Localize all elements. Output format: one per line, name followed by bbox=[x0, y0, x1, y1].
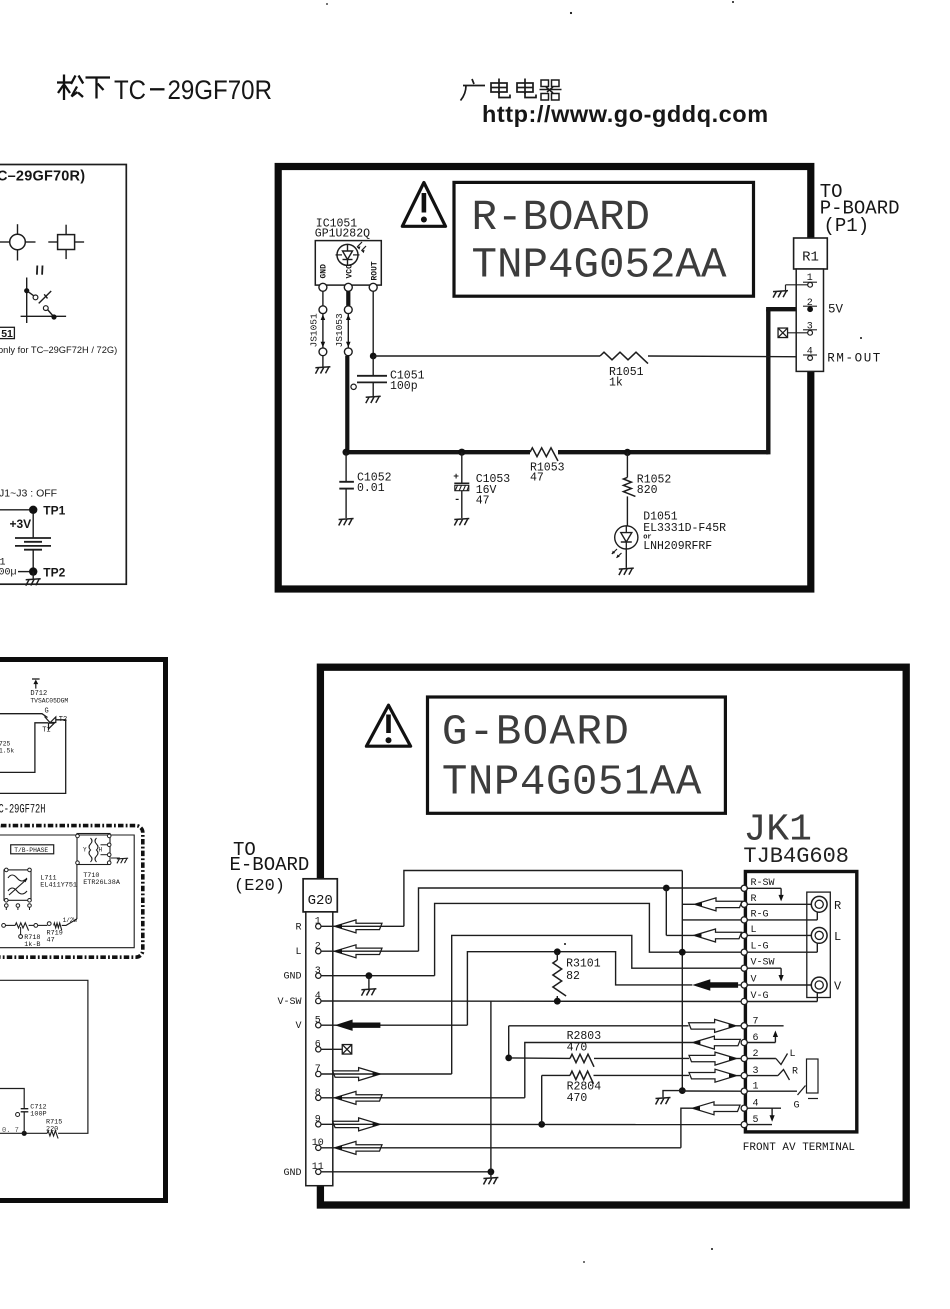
capacitor C1 100u partial labels bbox=[0, 558, 17, 579]
header brand glyphs 松下 bbox=[57, 75, 110, 101]
svg-text:H: H bbox=[99, 847, 103, 854]
ground of C1052 bbox=[339, 519, 354, 526]
svg-text:ROUT: ROUT bbox=[370, 261, 379, 280]
JK1 pin2 switch contact L bbox=[747, 1049, 795, 1065]
header CJK 广电电器 bbox=[461, 79, 562, 101]
R1 pin 3 bbox=[788, 321, 818, 335]
svg-text:GND: GND bbox=[283, 972, 301, 983]
svg-text:T/B-PHASE: T/B-PHASE bbox=[14, 847, 48, 854]
wire G20 pin10 to JK1 pin4 bbox=[321, 1102, 740, 1148]
svg-text:V: V bbox=[295, 1021, 301, 1032]
svg-text:V-SW: V-SW bbox=[751, 958, 775, 969]
svg-text:R1: R1 bbox=[802, 250, 819, 266]
ground of JS1051 bbox=[315, 367, 330, 374]
resistor R1051 1k bbox=[600, 352, 648, 389]
wire R1051 to R1 pin4 bbox=[648, 355, 807, 358]
svg-text:TC: TC bbox=[114, 75, 146, 105]
R1 pin 2 5V bbox=[803, 298, 844, 317]
JK1 upper pin circles and labels bbox=[741, 878, 774, 1005]
jumper JS1051 bbox=[309, 291, 327, 366]
svg-text:GND: GND bbox=[319, 264, 328, 279]
G20 pin 10 bbox=[312, 1138, 382, 1154]
connector R1 to P-board bbox=[794, 238, 828, 371]
JK1 pin4-5 down arrow link bbox=[747, 1108, 781, 1124]
svg-text:Y: Y bbox=[83, 847, 87, 854]
wire G20 pin8 to JK1 pin6 bbox=[321, 1036, 740, 1098]
transformer L711 EL411Y751 bbox=[4, 868, 77, 902]
label JK1 TJB4G608 bbox=[743, 809, 849, 870]
lower sub-circuit box with C712 R715 bbox=[0, 980, 88, 1138]
svg-text:L: L bbox=[295, 947, 301, 958]
svg-text:V-G: V-G bbox=[751, 991, 769, 1002]
svg-text:(P1): (P1) bbox=[824, 215, 870, 237]
svg-text:L: L bbox=[751, 925, 757, 936]
svg-text:1: 1 bbox=[315, 917, 321, 928]
svg-text:+: + bbox=[453, 471, 459, 482]
svg-text:G: G bbox=[45, 708, 49, 716]
wire L-G to jack L sleeve bbox=[747, 944, 817, 953]
svg-text:TP2: TP2 bbox=[43, 566, 65, 580]
LED D1051 bbox=[612, 511, 726, 568]
svg-text:11: 11 bbox=[312, 1162, 324, 1173]
header model number TC-29GF70R bbox=[114, 75, 272, 105]
svg-text:(E20): (E20) bbox=[234, 877, 285, 896]
test point TP1 bbox=[0, 504, 66, 518]
svg-text:R: R bbox=[295, 922, 301, 933]
warning triangle G-board bbox=[366, 705, 410, 746]
G20 pin 6 bbox=[315, 1040, 321, 1053]
RCA jack L bbox=[747, 928, 841, 944]
svg-text:8: 8 bbox=[315, 1088, 321, 1099]
svg-text:6: 6 bbox=[315, 1040, 321, 1051]
svg-text:R: R bbox=[792, 1067, 798, 1078]
wire G20 pin2 L to JK1 R-SW and L bbox=[321, 885, 742, 952]
svg-text:5: 5 bbox=[315, 1015, 321, 1026]
svg-text:100P: 100P bbox=[30, 1110, 46, 1118]
svg-text:only for TC–29GF72H / 72G): only for TC–29GF72H / 72G) bbox=[0, 345, 117, 355]
svg-text:R3101: R3101 bbox=[566, 958, 601, 971]
svg-text:00µ: 00µ bbox=[0, 568, 17, 579]
R1 pin 4 RM-OUT bbox=[803, 347, 882, 366]
wire G20 pin5 V to JK1 V bbox=[321, 948, 692, 1025]
resistor R1053 47 bbox=[530, 448, 565, 485]
ground of D1051 bbox=[619, 568, 634, 575]
wire ROUT to node and R1051 bbox=[370, 291, 600, 359]
svg-text:1/2W: 1/2W bbox=[63, 917, 78, 924]
wire G20 pin7 to JK1 V-SW bbox=[321, 935, 741, 1074]
svg-text:G20: G20 bbox=[308, 893, 333, 909]
G20 pin circles numbers labels and arrows bbox=[0, 0, 1, 1]
JK1 pin6 up arrow link bbox=[747, 1026, 783, 1043]
RCA jack V bbox=[747, 977, 842, 993]
transformer T710 ETR26L38A bbox=[76, 834, 121, 888]
5V thick supply wire from VCC to bus and R1 pin2 bbox=[345, 309, 806, 454]
resistor R725 labels partial bbox=[0, 741, 14, 755]
svg-text:JS1051: JS1051 bbox=[309, 313, 320, 348]
capacitor C1051 100p bbox=[351, 356, 425, 396]
wire G20 pin9 to JK1 pin5 bbox=[321, 1121, 741, 1128]
G-BOARD frame bbox=[320, 667, 906, 1205]
wire R-G to jack R sleeve bbox=[747, 912, 817, 920]
battery +3V bbox=[10, 513, 52, 571]
title box G-BOARD TNP4G051AA bbox=[428, 697, 726, 813]
slide switch symbol bbox=[21, 278, 67, 324]
ground of C1051 bbox=[366, 396, 381, 403]
svg-text:ETR26L38A: ETR26L38A bbox=[83, 879, 121, 887]
varistor D712 TVSAC05DGM bbox=[30, 679, 68, 704]
vertical bus wire V1 bbox=[681, 871, 683, 1091]
svg-text:R-SW: R-SW bbox=[751, 878, 775, 889]
G20 pin 2 L bbox=[295, 941, 382, 958]
JK1 pin1 switch contact G and earphone jack bbox=[747, 1059, 818, 1112]
no-connect cross square at R1 pin3 bbox=[778, 328, 788, 338]
svg-text:V-SW: V-SW bbox=[277, 997, 301, 1008]
title box R-BOARD TNP4G052AA bbox=[454, 182, 754, 296]
JK1 R-SW switch arm with down arrow bbox=[747, 888, 783, 901]
svg-text:TNP4G052AA: TNP4G052AA bbox=[472, 242, 728, 290]
G20 pin 1 R bbox=[295, 917, 382, 934]
label FRONT AV TERMINAL bbox=[743, 1142, 855, 1154]
svg-text:L-G: L-G bbox=[751, 942, 769, 953]
svg-text:VCC: VCC bbox=[345, 264, 354, 279]
label box T/B-PHASE bbox=[11, 845, 54, 854]
svg-text:FRONT AV TERMINAL: FRONT AV TERMINAL bbox=[743, 1142, 855, 1154]
test point TP2 bbox=[18, 566, 66, 586]
svg-text:R: R bbox=[834, 899, 841, 913]
svg-text:G: G bbox=[794, 1101, 800, 1112]
bottom-left box frame bbox=[0, 660, 166, 1201]
inner thin box of phase section bbox=[0, 835, 134, 948]
warning triangle R-board bbox=[402, 183, 445, 227]
svg-text:C-29GF72H: C-29GF72H bbox=[0, 802, 46, 816]
G20 pin 3 GND bbox=[283, 966, 321, 983]
scan specks bbox=[326, 1, 862, 1263]
svg-text:V: V bbox=[751, 975, 757, 986]
svg-text:+3V: +3V bbox=[10, 517, 32, 531]
wire G20 pin1 R to JK1 R (via top rail) bbox=[321, 871, 682, 927]
svg-text:JS1053: JS1053 bbox=[334, 313, 345, 348]
svg-text:47: 47 bbox=[47, 937, 55, 945]
RCA jack housing bbox=[807, 892, 831, 997]
G20 pin 11 GND bbox=[283, 1162, 323, 1179]
svg-text:EL3331D-F45R: EL3331D-F45R bbox=[643, 522, 726, 535]
G20 pin 5 V solid arrow bbox=[295, 1015, 380, 1032]
wire JK1 pin1 ground node bbox=[663, 1087, 741, 1097]
wire G20 pin6 to cross square bbox=[321, 1045, 352, 1055]
wire V-G to jack V sleeve bbox=[747, 993, 817, 1001]
jumper JS1053 bbox=[334, 291, 352, 355]
label TO P-BOARD (P1) bbox=[820, 181, 900, 237]
arrow into JK1 R bbox=[682, 898, 744, 911]
label TC-29GF72H partial bbox=[0, 802, 46, 816]
svg-text:47: 47 bbox=[476, 495, 490, 508]
jumper label box 51 bbox=[0, 327, 14, 340]
svg-text:51: 51 bbox=[1, 328, 13, 340]
svg-text:7: 7 bbox=[315, 1064, 321, 1075]
svg-text:470: 470 bbox=[567, 1041, 588, 1054]
JK1 connector box bbox=[745, 872, 856, 1132]
svg-text:TJB4G608: TJB4G608 bbox=[743, 844, 849, 869]
svg-text:4: 4 bbox=[315, 991, 321, 1002]
svg-text:C–29GF70R): C–29GF70R) bbox=[0, 169, 85, 185]
G20 pin 4 V-SW bbox=[277, 991, 321, 1008]
svg-text:220: 220 bbox=[46, 1125, 58, 1133]
svg-text:T1: T1 bbox=[42, 727, 50, 735]
RCA jack R bbox=[747, 896, 841, 912]
svg-text:E-BOARD: E-BOARD bbox=[230, 854, 310, 876]
svg-text:R-G: R-G bbox=[751, 909, 769, 920]
parallel marks bbox=[37, 266, 43, 275]
wire JK1 pin7 riser bbox=[505, 1019, 741, 1061]
top-left box title text C-29GF70R) bbox=[0, 169, 85, 185]
capacitor C1053 47uF 16V electrolytic bbox=[453, 449, 510, 518]
svg-text:GND: GND bbox=[283, 1168, 301, 1179]
svg-text:TVSAC05DGM: TVSAC05DGM bbox=[30, 697, 68, 704]
svg-text:100p: 100p bbox=[390, 380, 418, 393]
svg-text:TP1: TP1 bbox=[43, 504, 65, 518]
G20 pin 9 bbox=[315, 1115, 380, 1131]
resistor R2804 470 to JK1 pin3 bbox=[542, 1069, 741, 1124]
svg-text:http://www.go-gddq.com: http://www.go-gddq.com bbox=[482, 101, 769, 127]
JK1 V-SW switch arm with down arrow bbox=[747, 968, 783, 981]
svg-text:LNH209RFRF: LNH209RFRF bbox=[643, 540, 712, 553]
wire G20 pin3 GND to JK1 L-G bbox=[321, 903, 741, 988]
svg-text:2: 2 bbox=[315, 941, 321, 952]
wire G20 pin4 V-SW to JK1 V-G bbox=[321, 1000, 741, 1003]
jumper pins under L711 bbox=[5, 904, 32, 910]
svg-text:RM-OUT: RM-OUT bbox=[827, 352, 882, 366]
connector G20 to E-board bbox=[303, 879, 337, 1186]
svg-text:9: 9 bbox=[315, 1115, 321, 1126]
ground of R1 pin1 bbox=[773, 291, 788, 298]
svg-text:0. 7: 0. 7 bbox=[2, 1127, 19, 1135]
wire JK1 R-G stub bbox=[682, 919, 741, 921]
svg-text:1k-B: 1k-B bbox=[24, 941, 40, 949]
svg-text:0.01: 0.01 bbox=[357, 482, 385, 495]
svg-text:1k: 1k bbox=[609, 377, 623, 390]
svg-text:GP1U282Q: GP1U282Q bbox=[315, 228, 370, 241]
svg-text:TNP4G051AA: TNP4G051AA bbox=[442, 759, 702, 807]
svg-text:L: L bbox=[790, 1049, 796, 1060]
G20 pin 7 bbox=[315, 1064, 380, 1080]
svg-text:G-BOARD: G-BOARD bbox=[442, 709, 630, 757]
ground of T710 bbox=[117, 858, 128, 863]
node square symbol bbox=[48, 225, 84, 259]
header url go-gddq.com bbox=[482, 101, 769, 127]
svg-text:820: 820 bbox=[637, 484, 658, 497]
ground at G20 pin3 bbox=[361, 989, 376, 996]
triac T701 bbox=[42, 708, 67, 735]
svg-text:82: 82 bbox=[566, 970, 580, 983]
svg-text:10: 10 bbox=[312, 1138, 324, 1149]
svg-text:V: V bbox=[834, 980, 842, 994]
svg-text:3: 3 bbox=[315, 966, 321, 977]
svg-text:47: 47 bbox=[530, 472, 544, 485]
capacitor C1052 0.01 bbox=[339, 449, 391, 518]
JK1 pin3 switch contact R bbox=[747, 1067, 798, 1081]
resistor R3101 82 bbox=[553, 952, 601, 1005]
resistor network R718 R719 bbox=[2, 865, 78, 950]
node circle symbol bbox=[0, 224, 36, 260]
note J1-J3 OFF bbox=[0, 488, 57, 500]
G20 pin 8 bbox=[315, 1088, 382, 1104]
svg-text:5V: 5V bbox=[828, 303, 844, 317]
label TO E-BOARD (E20) bbox=[230, 839, 310, 896]
resistor R1052 820 bbox=[623, 449, 671, 526]
wire G20 pin11 GND bbox=[321, 1001, 494, 1177]
svg-text:470: 470 bbox=[567, 1092, 588, 1105]
svg-text:29GF70R: 29GF70R bbox=[168, 75, 273, 105]
svg-text:R: R bbox=[751, 894, 757, 905]
JK1 lower pin circles and numbers bbox=[741, 1016, 758, 1127]
ground at JK1 pin1 node bbox=[656, 1098, 671, 1105]
ground at G20 pin11 bbox=[483, 1178, 498, 1185]
R-BOARD frame bbox=[278, 167, 811, 590]
note only for TC-29GF72H bbox=[0, 345, 117, 355]
solid arrow into JK1 V bbox=[692, 979, 744, 990]
resistor R2803 470 to JK1 pin2 bbox=[509, 1030, 741, 1067]
svg-text:EL411Y751: EL411Y751 bbox=[40, 882, 77, 890]
R1 pin 1 bbox=[786, 273, 818, 290]
ground of C1053 bbox=[454, 519, 469, 526]
dash-dot phase control box bbox=[0, 826, 143, 958]
wires around triac bbox=[0, 714, 66, 794]
svg-text:R-BOARD: R-BOARD bbox=[472, 194, 651, 242]
IC1051 GP1U282Q infrared receiver bbox=[315, 218, 382, 292]
top-left box frame (TC-29GF70R remote unit) bbox=[0, 165, 126, 585]
svg-text:1.5k: 1.5k bbox=[0, 747, 14, 754]
svg-text:J1~J3 : OFF: J1~J3 : OFF bbox=[0, 488, 57, 500]
svg-text:L: L bbox=[834, 930, 841, 944]
svg-text:-: - bbox=[454, 494, 460, 506]
